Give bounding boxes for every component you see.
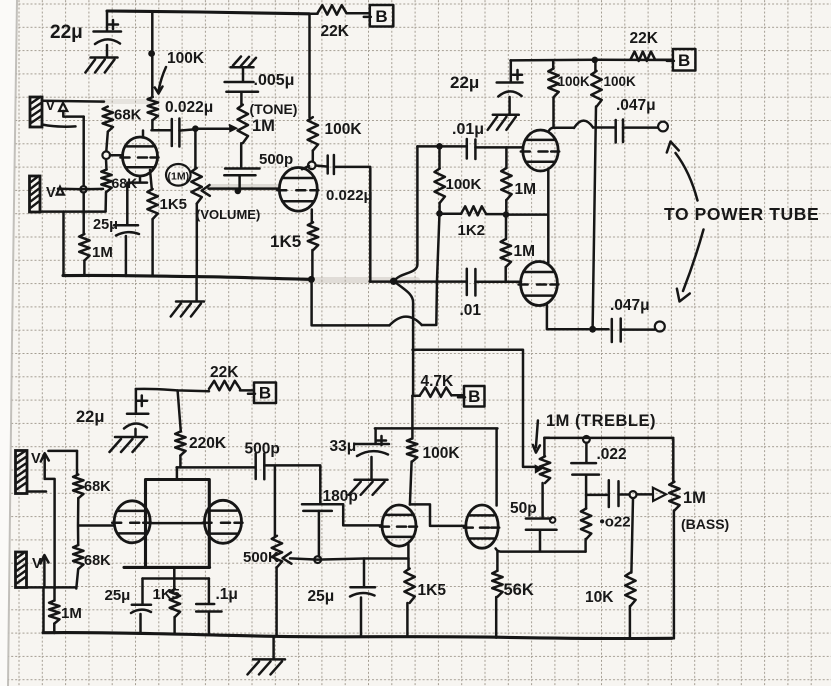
svg-text:.047μ: .047μ xyxy=(610,297,650,314)
capacitor C9 22u decoupling xyxy=(135,389,138,413)
node ring anode T2 xyxy=(308,162,316,170)
resistor R9 22K dropping xyxy=(631,52,656,62)
node dot PI grid bus xyxy=(436,143,443,150)
capacitor C20 500p xyxy=(224,169,259,176)
annotation arrow treble xyxy=(536,421,538,448)
resistor R25 slope xyxy=(585,495,588,509)
resistor R29 100K plate load xyxy=(308,117,318,151)
svg-text:•o22: •o22 xyxy=(600,514,631,531)
wire mid node xyxy=(586,494,607,497)
svg-text:B: B xyxy=(678,51,690,70)
svg-text:.022: .022 xyxy=(597,446,627,463)
wire V1 jack sleeve b xyxy=(27,490,46,493)
svg-text:(TONE): (TONE) xyxy=(250,101,298,117)
wire to C8 xyxy=(593,328,609,331)
wire R30 to bus xyxy=(311,250,314,276)
wire V2 sleeve to node xyxy=(27,586,77,589)
wire volume bottom to bus xyxy=(196,204,199,276)
svg-text:68K: 68K xyxy=(84,479,111,495)
capacitor C4 22u decoupling xyxy=(510,60,513,82)
svg-text:1M: 1M xyxy=(683,489,706,507)
svg-text:V: V xyxy=(31,451,41,467)
resistor R5 68K xyxy=(101,170,111,192)
node dot lower output xyxy=(589,326,596,333)
supply box B2 xyxy=(667,49,696,71)
wire box cathode stub xyxy=(173,567,176,578)
svg-text:100K: 100K xyxy=(446,176,482,193)
resistor R8 100K plate xyxy=(594,60,597,71)
resistor R10 100K bias xyxy=(438,146,441,168)
input jack V2 top xyxy=(30,176,41,212)
node dot volume top xyxy=(192,125,199,132)
wire signal bus into PI xyxy=(370,280,466,283)
wire T4 plate out xyxy=(547,305,589,330)
resistor R14 22K dropping xyxy=(209,381,240,391)
capacitor C14 25u bypass xyxy=(363,559,366,587)
svg-text:TO POWER TUBE: TO POWER TUBE xyxy=(664,204,819,224)
svg-text:1M: 1M xyxy=(92,244,113,261)
capacitor C8 0.47u output xyxy=(612,319,621,343)
wire vertical jack V2 to bus xyxy=(62,212,65,276)
wire C5 to terminal xyxy=(623,126,658,129)
resistor R1 100K plate load xyxy=(148,97,158,120)
node dot PI B+ xyxy=(592,57,599,64)
svg-text:22K: 22K xyxy=(630,30,659,47)
resistor R3 1K5 cathode xyxy=(147,189,157,219)
wire long vertical to lower output xyxy=(593,107,596,330)
svg-text:100K: 100K xyxy=(167,50,205,67)
ground below C4 xyxy=(493,114,519,117)
supply box B1 xyxy=(364,5,394,27)
wire PI riser lower curve xyxy=(394,281,413,395)
wire cathode net bus xyxy=(143,577,209,580)
svg-text:25μ: 25μ xyxy=(93,217,118,233)
wire T1 cathode to C3 xyxy=(127,176,147,225)
wire C6 to T3 grid xyxy=(475,146,523,149)
resistor R22 4.7K dropping xyxy=(412,395,419,398)
input jack V2 bottom xyxy=(16,552,27,588)
resistor R4 68K xyxy=(103,107,113,132)
node ring V2 wire xyxy=(80,186,86,192)
svg-text:1K5: 1K5 xyxy=(153,586,181,603)
triode T6 ch2 parallel xyxy=(205,500,242,543)
resistor R19 1K5 cathode xyxy=(173,579,176,590)
svg-text:100K: 100K xyxy=(604,74,637,89)
node dot tail right xyxy=(503,211,510,218)
terminal lower output xyxy=(655,322,665,332)
arrow to upper terminal xyxy=(676,153,698,201)
resistor R31 22K dropping xyxy=(309,13,317,16)
svg-text:500p: 500p xyxy=(245,441,280,458)
svg-text:68K: 68K xyxy=(84,553,111,569)
wire rail to R15 xyxy=(178,391,181,432)
wire output down to 10K xyxy=(631,498,633,572)
arrow R24 wiper xyxy=(535,464,543,474)
triode T7 third stage xyxy=(382,505,416,546)
wire channel2 ground bus xyxy=(43,633,672,639)
wire R1 to anode node xyxy=(152,120,172,130)
arrow R20 wiper xyxy=(283,553,292,564)
svg-text:220K: 220K xyxy=(189,435,227,452)
ground channel1 xyxy=(195,277,198,301)
junction blob on B+ vertical xyxy=(148,50,155,57)
svg-text:25μ: 25μ xyxy=(308,588,335,605)
wire cathodes vertical xyxy=(547,170,550,264)
wire channel1 output drop xyxy=(369,168,372,282)
svg-text:1M: 1M xyxy=(515,181,537,198)
capacitor C19 .005u tone xyxy=(225,82,258,92)
potentiometer R20 500K xyxy=(274,466,277,536)
capacitor C18 .022 bass xyxy=(609,480,619,507)
wire T2 cathode stub xyxy=(311,210,314,223)
svg-text:500p: 500p xyxy=(259,151,293,168)
supply box B4 xyxy=(458,386,485,407)
resistor R17 68K xyxy=(73,545,83,569)
capacitor C15 33u decoupling xyxy=(374,429,377,444)
wire lower contact bus xyxy=(64,210,106,213)
resistor R15 220K plate load xyxy=(175,432,185,456)
resistor R13 1M grid leak lower xyxy=(501,239,511,267)
volume wiper arrow xyxy=(202,185,210,196)
capacitor C2 0.022u coupling xyxy=(172,119,180,147)
wire R10 bottom leg xyxy=(436,216,439,325)
resistor R7 100K plate xyxy=(552,60,555,68)
wire B+ down to R29 xyxy=(308,14,311,117)
wire V2 jack to node xyxy=(58,188,103,191)
triode T5 ch2 first xyxy=(114,501,150,543)
node blob 4way junction xyxy=(390,278,397,285)
capacitor C7 .01u PI input lower xyxy=(467,269,476,296)
svg-text:B: B xyxy=(259,383,271,402)
svg-text:100K: 100K xyxy=(325,121,363,138)
svg-text:(1M): (1M) xyxy=(168,171,190,183)
node ring 180p junction xyxy=(314,556,321,563)
resistor R18 1M grid leak xyxy=(53,588,56,600)
svg-text:V: V xyxy=(46,185,56,201)
wire T7 anode to T8 grid xyxy=(410,504,466,526)
svg-text:10K: 10K xyxy=(585,589,614,606)
potentiometer R2 1M volume xyxy=(191,168,201,204)
wire tone pot to C20 xyxy=(240,143,243,168)
capacitor C3 25u cathode bypass xyxy=(114,224,138,227)
svg-text:(VOLUME): (VOLUME) xyxy=(196,207,260,222)
wire PI grid1 xyxy=(417,145,466,148)
annotation arrow to R1 xyxy=(159,67,166,90)
wire treble top lead xyxy=(544,438,549,457)
wire T1 cathode right xyxy=(150,170,152,189)
svg-text:0.022μ: 0.022μ xyxy=(165,99,213,116)
ground below C15 xyxy=(355,479,388,482)
input jack V1 bottom xyxy=(16,451,28,494)
wire PI B+ rail xyxy=(510,59,672,62)
wire grid link T7 xyxy=(333,504,382,525)
wire T8 anode to B+ xyxy=(495,429,498,506)
capacitor C16 50p xyxy=(541,483,544,518)
resistor R32 1K5 cathode xyxy=(407,558,410,568)
svg-text:100K: 100K xyxy=(423,445,461,462)
capacitor C5 0.47u output xyxy=(616,120,623,143)
svg-text:1M (TREBLE): 1M (TREBLE) xyxy=(546,412,656,430)
svg-text:33μ: 33μ xyxy=(330,438,357,455)
resistor R30 1K5 cathode xyxy=(308,222,318,250)
svg-text:0.022μ: 0.022μ xyxy=(326,187,373,204)
svg-text:56K: 56K xyxy=(504,581,534,599)
triode T2 second stage xyxy=(279,168,317,212)
capacitor C17 .022 treble xyxy=(585,443,588,463)
capacitor C1 22u decoupling xyxy=(106,12,109,32)
svg-text:.047μ: .047μ xyxy=(616,97,656,114)
capacitor C13 180p xyxy=(319,466,322,504)
resistor R11 1K2 tail xyxy=(461,206,486,215)
wire V1 top lead xyxy=(48,450,77,453)
wire R4 to grid node xyxy=(106,132,108,151)
node ring output junction xyxy=(630,491,637,498)
svg-text:1K5: 1K5 xyxy=(418,582,447,599)
svg-text:68K: 68K xyxy=(114,107,142,124)
svg-text:B: B xyxy=(468,387,480,406)
triode T8 cathode follower xyxy=(466,505,498,548)
wire R29 to anode node xyxy=(312,151,315,162)
svg-text:22K: 22K xyxy=(210,364,239,381)
svg-text:22μ: 22μ xyxy=(76,408,104,426)
wire V2 jack sleeve xyxy=(40,210,64,213)
wire между R16 R17 xyxy=(77,498,80,545)
svg-text:25μ: 25μ xyxy=(105,587,131,604)
svg-text:500K: 500K xyxy=(243,549,279,566)
wire grid entry xyxy=(78,524,114,527)
node ring treble junction xyxy=(583,436,590,443)
capacitor C10 25u bypass xyxy=(141,579,144,604)
wire B+ drop 4K7 node xyxy=(411,396,414,439)
wire inner grid link xyxy=(151,522,205,525)
node ring T1 grid xyxy=(102,151,110,159)
wire top B+ bus xyxy=(107,11,309,14)
label (1M) circled xyxy=(166,164,191,186)
svg-text:22μ: 22μ xyxy=(450,73,479,92)
wire channel1 ground bus xyxy=(63,275,311,279)
wire wiper bus xyxy=(290,558,408,559)
resistor R21 100K plate xyxy=(407,439,417,462)
svg-text:1M: 1M xyxy=(252,117,275,135)
wire anode box xyxy=(124,480,210,568)
wire T2 anode stub xyxy=(302,166,309,169)
capacitor C6 .01u PI input xyxy=(467,139,476,159)
output arrow head xyxy=(653,488,666,501)
svg-text:22K: 22K xyxy=(321,23,350,40)
svg-text:100K: 100K xyxy=(558,74,591,89)
svg-text:50p: 50p xyxy=(510,500,537,517)
wire T8 cathode out xyxy=(496,549,586,552)
wire V2 drop to bus xyxy=(42,588,45,633)
wire R3 to bus xyxy=(151,219,154,276)
svg-text:B: B xyxy=(375,7,387,26)
ground channel2 xyxy=(272,636,275,658)
wire T7 cathode xyxy=(407,545,410,559)
ground below C1 xyxy=(91,56,118,59)
resistor R6 1M grid leak xyxy=(79,234,89,261)
wire stub into box xyxy=(176,467,179,479)
terminal upper output xyxy=(658,122,668,132)
wire V1 step down xyxy=(82,117,85,186)
svg-text:(BASS): (BASS) xyxy=(681,516,729,532)
svg-text:1K2: 1K2 xyxy=(458,222,486,239)
ground above C19 tone xyxy=(231,66,254,69)
svg-text:22μ: 22μ xyxy=(50,22,83,43)
wire V1 jack top lead xyxy=(42,100,104,103)
wire tone top bus xyxy=(544,437,673,440)
triode T1 first stage xyxy=(123,137,158,176)
wire PI tail bus xyxy=(413,350,535,467)
resistor R26 10K xyxy=(625,573,635,606)
capacitor C21 0.022u coupling xyxy=(316,166,328,167)
wire grid dot to T1 xyxy=(110,154,123,157)
resistor R12 1M grid leak upper xyxy=(501,168,511,200)
supply box B3 xyxy=(248,383,276,404)
wire stage3 B+ bus xyxy=(375,427,498,430)
wire left riser top xyxy=(76,451,79,475)
triode T3 PI upper xyxy=(523,130,558,171)
node dot tail left xyxy=(436,210,443,217)
capacitor C11 .1u bypass xyxy=(208,579,211,604)
wire PI left riser xyxy=(394,146,417,281)
wire R6 to bus xyxy=(83,261,86,276)
node dot wiper junction xyxy=(235,188,242,195)
triode T4 PI lower xyxy=(521,262,558,306)
svg-text:1K5: 1K5 xyxy=(160,196,188,213)
wire anode node horizontal xyxy=(177,466,255,469)
wire R17 bottom xyxy=(76,569,78,589)
wire T1 anode stub xyxy=(142,131,145,138)
arrow to lower terminal xyxy=(683,230,704,292)
tone pot wiper arrow xyxy=(229,124,238,133)
wire bottom B+ rail xyxy=(136,389,209,391)
resistor R16 68K xyxy=(73,475,83,499)
svg-text:.1μ: .1μ xyxy=(216,586,238,603)
resistor R27 1M bass xyxy=(672,439,675,482)
svg-text:.01μ: .01μ xyxy=(452,121,484,138)
potentiometer R24 1M treble xyxy=(540,456,550,483)
ground below C9 xyxy=(115,436,147,439)
wire R15 to node xyxy=(179,456,182,468)
svg-text:1K5: 1K5 xyxy=(270,232,301,251)
potentiometer R28 1M tone xyxy=(238,105,248,143)
wire grounded grid bus xyxy=(312,281,390,325)
wire to output arrow xyxy=(637,493,653,496)
input jack V1 top xyxy=(30,97,42,127)
svg-text:1M: 1M xyxy=(514,243,536,260)
wire volume pot top lead xyxy=(194,129,197,168)
capacitor C12 500p coupling xyxy=(256,454,265,480)
wire C8 to terminal xyxy=(621,328,655,331)
wire T3 anode to C5 with hop xyxy=(549,128,574,132)
wire grid node down xyxy=(105,159,108,169)
wire to tone wiper xyxy=(195,127,229,130)
resistor R23 56K cathode load xyxy=(496,552,499,571)
svg-text:4.7K: 4.7K xyxy=(421,373,455,390)
svg-text:1M: 1M xyxy=(61,605,82,622)
wire R5 bottom to V2 node xyxy=(104,192,107,211)
wire V1 jack sleeve xyxy=(42,125,76,127)
wire tail to cathodes xyxy=(506,213,548,216)
svg-text:.005μ: .005μ xyxy=(254,72,295,89)
svg-text:.01: .01 xyxy=(460,302,482,319)
node dot bus cathode xyxy=(308,276,315,283)
wire volume wiper to T2 grid xyxy=(209,187,280,190)
wire 1M top stub xyxy=(82,193,85,235)
wire vertical B+ to R1 xyxy=(151,12,154,97)
